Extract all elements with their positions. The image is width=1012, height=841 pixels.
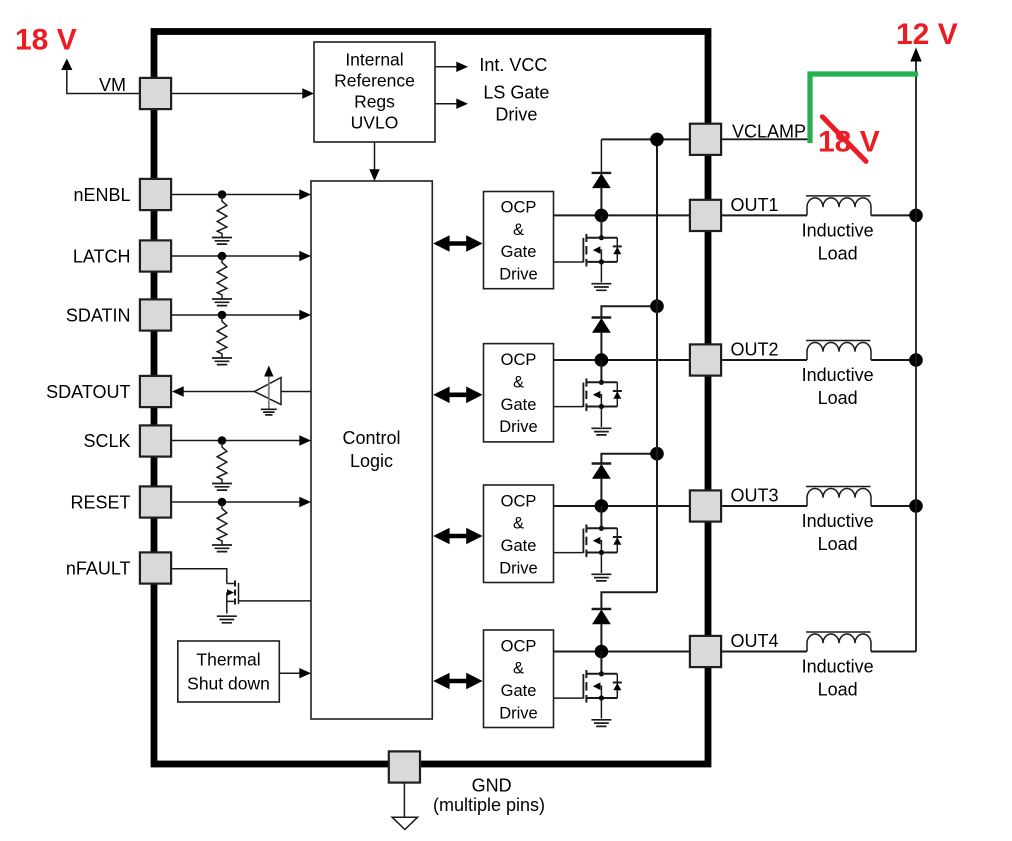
- junction row3 clamp: [650, 447, 664, 461]
- wire nFAULT: [171, 569, 227, 584]
- box OCP gate drive 4: [484, 630, 554, 728]
- svg-text:Gate: Gate: [501, 682, 537, 700]
- svg-text:LS Gate: LS Gate: [483, 82, 549, 102]
- svg-text:OUT2: OUT2: [731, 340, 779, 360]
- pin SCLK: [140, 425, 171, 456]
- pin RESET: [140, 486, 171, 517]
- svg-text:Load: Load: [818, 243, 858, 263]
- svg-text:(multiple pins): (multiple pins): [433, 795, 545, 815]
- svg-text:OCP: OCP: [501, 199, 537, 217]
- svg-text:Gate: Gate: [501, 396, 537, 414]
- junction bus OUT1: [909, 209, 923, 223]
- svg-text:OUT3: OUT3: [731, 486, 779, 506]
- inductor load 4: [806, 632, 871, 652]
- wire buffer to SDATOUT pin: [183, 391, 255, 393]
- svg-text:Regs: Regs: [354, 92, 395, 112]
- svg-text:Control: Control: [342, 428, 400, 448]
- box OCP gate drive 1: [484, 192, 554, 289]
- box internal reference regs UVLO: [314, 42, 435, 142]
- svg-text:GND: GND: [472, 776, 512, 796]
- box control logic: [311, 181, 432, 719]
- clamp diode D1: [600, 139, 602, 173]
- svg-text:LATCH: LATCH: [73, 247, 131, 267]
- chip outline border: [154, 32, 708, 765]
- double arrow control to OCP3: [433, 528, 482, 545]
- svg-text:SDATOUT: SDATOUT: [46, 382, 130, 402]
- wire OUT3 internal: [554, 505, 690, 507]
- svg-text:Thermal: Thermal: [196, 650, 260, 670]
- svg-text:Gate: Gate: [501, 243, 537, 261]
- green annotation wire: [810, 74, 918, 143]
- pin LATCH: [140, 240, 171, 271]
- svg-text:Gate: Gate: [501, 537, 537, 555]
- svg-text:SDATIN: SDATIN: [66, 306, 131, 326]
- svg-text:&: &: [513, 515, 524, 533]
- mosfet M2: [554, 353, 622, 435]
- svg-text:Int. VCC: Int. VCC: [479, 55, 547, 75]
- svg-text:RESET: RESET: [70, 493, 130, 513]
- svg-text:Inductive: Inductive: [802, 511, 874, 531]
- svg-text:nFAULT: nFAULT: [66, 559, 131, 579]
- red strike line: [822, 117, 866, 162]
- wire VCLAMP external: [721, 138, 810, 140]
- buffer on SDATOUT: [255, 378, 282, 405]
- svg-text:OCP: OCP: [501, 351, 537, 369]
- arrow to Int. VCC: [435, 66, 457, 68]
- svg-text:nENBL: nENBL: [73, 185, 130, 205]
- junction bus OUT2: [909, 353, 923, 367]
- buffer enable line: [268, 376, 270, 409]
- gnd pin wire: [403, 783, 405, 817]
- pin SDATIN: [140, 299, 171, 330]
- svg-text:12 V: 12 V: [896, 18, 958, 51]
- svg-text:Drive: Drive: [499, 418, 538, 436]
- inductor load 2: [806, 341, 871, 361]
- svg-text:Logic: Logic: [350, 451, 393, 471]
- wire nENBL: [171, 194, 300, 196]
- arrow thermal to control logic: [279, 672, 300, 674]
- svg-text:UVLO: UVLO: [351, 113, 399, 133]
- inductor load 1: [806, 196, 871, 216]
- clamp wire row3: [601, 454, 657, 464]
- svg-text:Internal: Internal: [345, 50, 403, 70]
- 12V bus: [915, 52, 917, 652]
- pin OUT4: [690, 636, 721, 667]
- junction bus OUT3: [909, 499, 923, 513]
- svg-text:Reference: Reference: [334, 71, 415, 91]
- svg-text:Load: Load: [818, 680, 858, 700]
- wire OUT2 internal: [554, 359, 690, 361]
- clamp wire row4: [601, 592, 657, 609]
- clamp bus: [656, 139, 658, 592]
- box thermal shutdown: [178, 641, 279, 702]
- wire OUT3 external: [721, 505, 916, 507]
- wire VM to internal regs: [171, 93, 303, 95]
- mosfet M3: [554, 499, 622, 581]
- arrow to LS Gate Drive: [435, 103, 457, 105]
- pin nENBL: [140, 179, 171, 210]
- svg-text:Drive: Drive: [499, 559, 538, 577]
- svg-text:18 V: 18 V: [15, 23, 77, 56]
- svg-text:&: &: [513, 660, 524, 678]
- inductor load 3: [806, 487, 871, 507]
- svg-text:OCP: OCP: [501, 637, 537, 655]
- pin GND: [389, 751, 420, 782]
- junction VCLAMP bus: [650, 133, 664, 147]
- svg-text:Inductive: Inductive: [802, 365, 874, 385]
- svg-text:Shut down: Shut down: [187, 673, 270, 693]
- wire LATCH: [171, 255, 300, 257]
- box OCP gate drive 3: [484, 485, 554, 583]
- svg-text:OUT1: OUT1: [731, 195, 779, 215]
- wire SDATIN: [171, 314, 300, 316]
- wire OUT4 internal: [554, 651, 690, 653]
- svg-text:Drive: Drive: [499, 266, 538, 284]
- arrow regs to control logic: [374, 142, 376, 170]
- clamp wire row2: [601, 306, 657, 317]
- pin OUT3: [690, 490, 721, 521]
- svg-text:Inductive: Inductive: [802, 657, 874, 677]
- double arrow control to OCP1: [433, 235, 482, 252]
- wire RESET: [171, 501, 300, 503]
- clamp diode D4: [592, 609, 612, 652]
- mosfet M1: [554, 209, 622, 291]
- wire OUT1 internal: [554, 214, 690, 216]
- resistor on nENBL: [212, 190, 232, 244]
- resistor on SCLK: [212, 436, 232, 490]
- svg-text:SCLK: SCLK: [83, 431, 130, 451]
- 18V supply arrow: [61, 59, 72, 71]
- wire OUT2 external: [721, 359, 916, 361]
- wire SDATOUT from control logic: [281, 391, 311, 393]
- resistor on RESET: [212, 498, 232, 552]
- box OCP gate drive 2: [484, 344, 554, 442]
- gnd open arrow: [392, 817, 418, 829]
- svg-text:OCP: OCP: [501, 492, 537, 510]
- wire SCLK: [171, 440, 300, 442]
- svg-text:OUT4: OUT4: [731, 631, 779, 651]
- resistor on SDATIN: [212, 311, 232, 365]
- clamp diode D3: [592, 464, 612, 507]
- pin OUT1: [690, 200, 721, 231]
- svg-text:Drive: Drive: [499, 704, 538, 722]
- svg-text:VM: VM: [99, 75, 126, 95]
- transistor nFAULT open-drain FET: [227, 581, 311, 614]
- svg-text:&: &: [513, 221, 524, 239]
- svg-text:Drive: Drive: [495, 104, 537, 124]
- svg-text:Load: Load: [818, 534, 858, 554]
- pin VCLAMP: [690, 124, 721, 155]
- pin OUT2: [690, 344, 721, 375]
- double arrow control to OCP4: [433, 673, 482, 690]
- mosfet M4: [554, 645, 622, 727]
- svg-text:Inductive: Inductive: [802, 220, 874, 240]
- clamp diode D2: [592, 318, 612, 361]
- svg-text:Load: Load: [818, 388, 858, 408]
- double arrow control to OCP2: [433, 387, 482, 404]
- pin VM: [140, 78, 171, 109]
- pin SDATOUT: [140, 376, 171, 407]
- wire OUT4 external: [721, 651, 916, 653]
- junction row2 clamp: [650, 299, 664, 313]
- resistor on LATCH: [212, 252, 232, 306]
- wire VCLAMP internal: [601, 138, 690, 140]
- wire OUT1 external: [721, 214, 916, 216]
- ground below nFAULT FET: [217, 616, 237, 623]
- svg-text:&: &: [513, 374, 524, 392]
- pin nFAULT: [140, 552, 171, 583]
